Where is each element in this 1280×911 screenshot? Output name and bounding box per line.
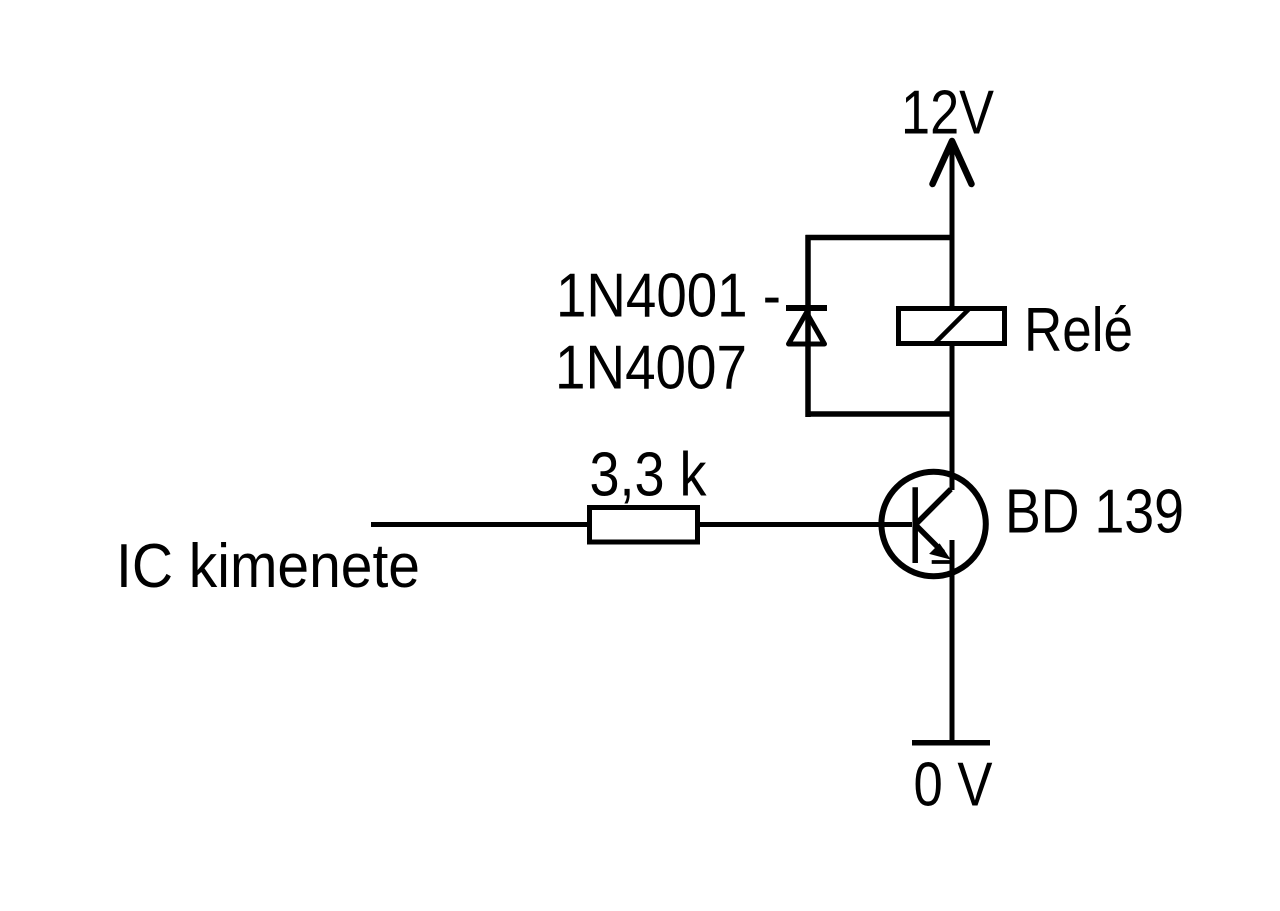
svg-text:3,3 k: 3,3 k [590,440,708,509]
svg-text:1N4007: 1N4007 [555,334,747,403]
svg-text:Relé: Relé [1024,296,1133,365]
svg-text:12V: 12V [901,79,995,148]
svg-text:BD 139: BD 139 [1005,478,1184,547]
svg-text:1N4001 -: 1N4001 - [556,261,781,330]
svg-text:IC kimenete: IC kimenete [116,532,420,601]
svg-text:0 V: 0 V [914,751,994,820]
